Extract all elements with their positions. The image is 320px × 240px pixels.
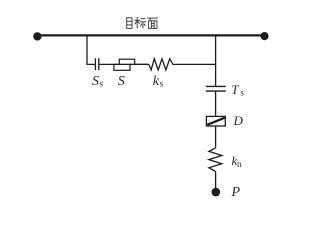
svg-text:T: T	[231, 82, 239, 97]
svg-text:s: s	[160, 78, 164, 88]
svg-text:s: s	[100, 78, 104, 88]
svg-text:S: S	[118, 74, 125, 89]
svg-text:n: n	[237, 159, 242, 169]
svg-text:D: D	[233, 113, 244, 128]
svg-text:P: P	[231, 185, 241, 200]
svg-text:s: s	[240, 87, 244, 97]
svg-text:S: S	[92, 74, 99, 89]
